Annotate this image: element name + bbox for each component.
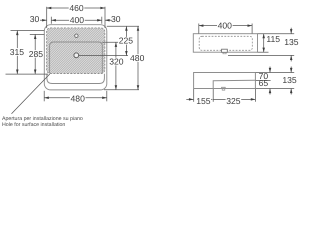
315 [9,47,25,57]
30 left / right [42,19,47,22]
320 line [115,42,117,90]
left witness lines [11,30,45,32]
hole cut-out hatched area [47,28,105,74]
325 arrow [251,98,256,101]
svg-text:460: 460 [69,3,84,13]
front hidden bowl dashed [199,36,252,50]
325 [226,96,242,106]
320 [115,42,118,47]
30 arrow stems [40,19,47,21]
svg-text:325: 325 [226,96,241,106]
135 front stems [290,28,292,34]
tap hole [75,34,78,37]
front drain stub [222,49,228,52]
400 front [199,24,204,27]
svg-text:225: 225 [119,36,134,46]
svg-text:135: 135 [284,37,299,47]
315 line [16,31,18,75]
155 stem / 325 line [186,98,193,100]
115 line [263,34,265,53]
svg-text:480: 480 [130,53,145,63]
svg-text:Hole for surface installation: Hole for surface installation [2,122,65,128]
side drain notch [222,87,226,88]
70/65 stems [269,67,271,73]
bowl outline (clipped at hole bottom) [50,42,103,74]
caption text [2,116,83,128]
135 side stems [290,67,292,73]
400 row [51,19,102,21]
225 [125,26,128,31]
400 front row [199,25,252,27]
115 [262,34,265,39]
285 line [34,34,36,74]
side underside step [213,80,255,88]
155 arrows [189,98,194,101]
drain hole [74,53,79,58]
460 [69,3,85,13]
400 front [217,21,233,31]
480 vertical line [137,26,139,90]
svg-text:480: 480 [71,94,86,104]
480 bottom row [43,91,45,102]
225 line [125,26,127,55]
315 [16,31,19,36]
svg-text:65: 65 [259,78,269,88]
svg-text:115: 115 [266,34,280,44]
480 vertical [129,53,145,63]
285 [28,49,44,59]
svg-text:30: 30 [111,14,121,24]
svg-text:30: 30 [30,14,40,24]
front witnesses right [258,33,295,35]
svg-text:135: 135 [282,75,297,85]
svg-text:315: 315 [10,47,25,57]
135 side outside [290,68,293,73]
hole cut-out dashed outline [47,28,105,74]
320 [109,56,125,66]
svg-text:285: 285 [29,49,44,59]
plan dimension lines [6,7,140,114]
bottom dim witnesses [193,89,195,102]
svg-text:400: 400 [70,15,85,25]
155 [196,96,212,106]
460 row [47,7,105,9]
side body [194,73,256,89]
480 bottom [44,96,49,99]
480 vertical [137,26,140,31]
135 front outside [290,29,293,34]
caption leader [12,74,50,114]
basin outer body [44,25,107,90]
460 [47,7,52,10]
400 [51,19,56,22]
svg-text:400: 400 [218,21,233,31]
480 bottom [70,94,86,104]
side witnesses right [256,72,295,74]
285 [34,34,37,39]
70/65 outside [269,68,272,73]
right witness lines [107,25,139,27]
front body [193,34,257,53]
225 [118,36,134,46]
front apron edge [47,74,105,84]
400 [69,15,85,25]
svg-text:155: 155 [196,96,211,106]
svg-text:320: 320 [109,56,124,66]
